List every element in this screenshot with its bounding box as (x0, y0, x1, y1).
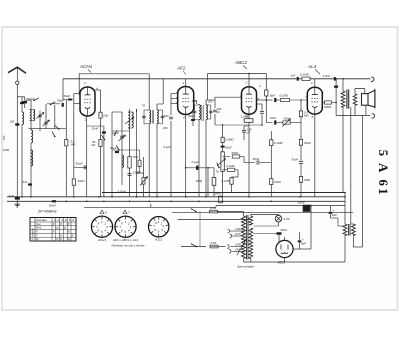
ground antenna (16, 200, 18, 202)
tap connector plugs (227, 245, 229, 249)
svg-text:1kΩ: 1kΩ (103, 114, 109, 118)
svg-text:0,1µF: 0,1µF (164, 145, 171, 149)
coil L5 oscillator (129, 109, 131, 112)
coil L1 antenna primary (21, 97, 23, 112)
IF transformer T1 secondary (157, 110, 158, 123)
switch S1b (50, 104, 52, 106)
svg-text:ABC1: ABC1 (234, 60, 247, 65)
connector hook right lower (371, 114, 374, 118)
wire IF1 sec top to AF2 loop (157, 103, 163, 105)
capacitor C15 IF1 tune 1 (143, 110, 145, 124)
resistor R12 10k (270, 179, 273, 185)
svg-text:5nF: 5nF (23, 180, 28, 184)
wire diode line to ABC1 (215, 96, 242, 98)
wire ACH1 anode loop (79, 74, 149, 109)
capacitor C5 padder dark (15, 123, 19, 125)
output transformer T3 secondary (353, 94, 357, 105)
svg-text:300Ω: 300Ω (324, 105, 332, 109)
wire AL4 top (314, 79, 316, 87)
svg-text:AZ11: AZ11 (154, 238, 162, 242)
resistor R19 2M grid leak (213, 168, 215, 178)
junction dots on buses (21, 196, 23, 198)
wire ground bus 2 (7, 196, 345, 198)
resistor R5 0.3M (222, 125, 224, 137)
wire HT bus top (63, 78, 371, 80)
wire AF2 cathode pin (194, 100, 197, 102)
svg-text:2MΩ: 2MΩ (195, 179, 203, 183)
wire AL4 grid leak down (300, 100, 302, 111)
wire ABC1 anode to coupling (266, 99, 268, 101)
svg-text:50nF: 50nF (298, 201, 305, 205)
capacitor C7 grid coupling dark (65, 100, 67, 140)
capacitor C10 gang 2 trimmer (125, 117, 134, 124)
svg-text:ACH1: ACH1 (79, 64, 93, 69)
svg-text:pF: pF (216, 110, 220, 114)
resistor R20 5k tone with switch (283, 121, 290, 124)
svg-text:8µF: 8µF (270, 94, 275, 98)
svg-text:220V: 220V (234, 243, 241, 247)
capacitor C9 20nF osc (103, 126, 105, 197)
wire antenna down-lead (16, 84, 18, 196)
switch S6 mains (195, 211, 197, 213)
coil L6 osc feedback (122, 155, 124, 167)
svg-text:50Ω: 50Ω (133, 155, 138, 159)
svg-text:2: 2 (310, 81, 313, 85)
tube AL4 V4 (307, 87, 322, 114)
wire heater to pilot lamp (250, 215, 252, 217)
svg-text:0,1MΩ: 0,1MΩ (274, 141, 283, 145)
capacitor C31 50nF AZ11 (277, 232, 282, 235)
svg-text:200: 200 (191, 99, 197, 103)
output transformer T3 primary (342, 79, 344, 91)
svg-text:2: 2 (258, 84, 261, 88)
svg-text:8µF: 8µF (332, 213, 337, 217)
rectifier AZ11 V5 (276, 240, 293, 257)
svg-text:50nF: 50nF (292, 158, 299, 162)
wire transformer bottom to chassis (243, 259, 245, 263)
capacitor C20 T2 tune2 (210, 105, 212, 119)
potentiometer P1 volume 1M (221, 152, 224, 172)
voltage selector arrow (237, 239, 247, 255)
resistor R7 0.1M (227, 168, 235, 171)
resistor R1 0.5M grid leak (65, 140, 68, 146)
capacitor C16 IF1 tune 2 (162, 110, 164, 124)
wire speaker bottom lead (365, 105, 367, 115)
svg-text:50pF: 50pF (64, 94, 71, 98)
capacitor C37 AVC diode (261, 104, 263, 111)
wire ACH1 grid (74, 102, 80, 104)
svg-text:pF: pF (246, 131, 251, 135)
capacitor C18 20uF cathode (191, 119, 195, 121)
svg-text:MΩ: MΩ (304, 114, 309, 118)
svg-text:ACH1: ACH1 (97, 238, 106, 242)
tube ABC1 V3 (242, 87, 257, 115)
capacitor C34 50nF line filter (303, 205, 310, 212)
wire extra speaker line 1 (350, 107, 352, 224)
wire to choke input (300, 248, 312, 250)
svg-text:50nF: 50nF (253, 157, 260, 161)
svg-text:+: + (333, 209, 335, 213)
capacitor C13 150pF (128, 173, 132, 175)
capacitor C1 500pF antenna series (17, 96, 24, 98)
transformer taps (230, 230, 244, 232)
wire to volume pot (207, 168, 209, 197)
svg-text:AF2: AF2 (176, 66, 186, 71)
wire ABC1 right pin (255, 96, 257, 98)
svg-text:Sperrschalter: Sperrschalter (237, 265, 255, 269)
switch S4 (118, 149, 120, 151)
filter choke L8 (343, 224, 347, 236)
wire AL4 anode bus to output transformer (335, 79, 337, 93)
capacitor C2 50pF (47, 103, 60, 105)
speaker LS1 (362, 94, 369, 106)
switch S5 tone Ta (218, 167, 220, 169)
svg-text:500: 500 (2, 135, 6, 140)
lamp icon 7 (123, 210, 127, 213)
pilot lamp LA1 (275, 215, 282, 222)
svg-text:0,1MΩ: 0,1MΩ (222, 179, 231, 183)
socket AF2 ABC1 AL4 bottom view (115, 216, 136, 237)
wire secondary bottom (354, 105, 356, 115)
antenna (8, 67, 26, 73)
svg-text:Ta: Ta (216, 170, 219, 174)
svg-text:0,3MΩ: 0,3MΩ (225, 138, 234, 142)
svg-text:50pF: 50pF (57, 99, 65, 103)
svg-text:50kΩ: 50kΩ (232, 151, 240, 155)
capacitor C25b 8uF coupling (257, 99, 273, 101)
svg-text:1,5MΩ: 1,5MΩ (241, 115, 251, 119)
svg-text:2: 2 (83, 81, 86, 85)
capacitor C28 blob at HT (297, 77, 299, 81)
wire HT to bus right (310, 206, 312, 230)
wire mains lead 2 (181, 246, 206, 248)
wire ACH1 anode to IF1 (136, 109, 138, 112)
wire HT down right (344, 193, 346, 225)
output transformer T3 core (346, 89, 348, 108)
svg-text:4µF: 4µF (301, 242, 306, 246)
wire extra speaker line 2 (362, 116, 364, 248)
resistor R4 1.5M (248, 114, 250, 119)
wire choke bottom connection (331, 217, 339, 219)
transformer T4 HT winding (249, 228, 253, 259)
wire AZ11 connections (278, 240, 280, 243)
svg-text:110V: 110V (235, 227, 241, 231)
svg-text:MΩ: MΩ (71, 143, 76, 147)
wire AF2 top cap (185, 79, 187, 87)
resistor R16 0.1M (299, 177, 302, 183)
svg-text:50nF: 50nF (49, 204, 56, 208)
IF transformer T2 coils (199, 105, 201, 120)
switch S1c (54, 105, 56, 129)
svg-text:2MΩ: 2MΩ (303, 178, 311, 182)
wire ground bus 3 (7, 200, 345, 202)
switch S1a wave band (33, 100, 35, 102)
svg-text:120pF: 120pF (137, 171, 145, 175)
wire AF2 grids left (171, 93, 178, 95)
capacitor C3 tuning gang 1 (39, 111, 41, 129)
switch linkage (199, 212, 201, 247)
switch S2 range (58, 128, 60, 130)
capacitor C33 8uF filter out (329, 212, 333, 214)
coil L4 lower winding (31, 150, 33, 166)
tube ACH1 V1 (80, 87, 95, 116)
resistor R15 50k (299, 139, 302, 145)
svg-text:20µF: 20µF (187, 114, 195, 118)
svg-text:Gesehen von der Lötseite: Gesehen von der Lötseite (111, 244, 144, 248)
coil L2 L3 tuned secondary (30, 100, 32, 109)
resistor R6 50k tone (223, 156, 230, 158)
capacitor C21 200pF diode (213, 109, 217, 111)
svg-text:0,1MΩ: 0,1MΩ (226, 164, 235, 168)
svg-text:+: + (302, 237, 304, 241)
wire ABC1 anode top (248, 74, 250, 87)
switch S3 osc (104, 139, 106, 141)
fuse F1 0.8A (210, 210, 218, 213)
switch S4b (114, 134, 116, 136)
svg-text:2nF: 2nF (290, 74, 296, 78)
resistor R3 osc grid (100, 90, 102, 112)
wire heater to sockets (84, 206, 216, 208)
IF T1 core (151, 110, 153, 124)
svg-text:2: 2 (56, 218, 59, 222)
resistor R18 300 ohm (325, 101, 332, 104)
capacitor C17 100pF AF2 (169, 116, 173, 118)
field coil L9 (352, 224, 356, 236)
wire osc mesh (112, 130, 130, 132)
resistor R21 50 ohm (139, 150, 141, 160)
transformer T4 heater winding (249, 216, 253, 225)
wire HT winding top to AZ11 anode (251, 227, 256, 229)
svg-text:20nF: 20nF (91, 127, 99, 131)
svg-text:10nF: 10nF (270, 116, 277, 120)
capacitor C19 T2 tune1 (194, 105, 196, 119)
svg-text:0,8A: 0,8A (211, 241, 217, 245)
capacitor C36 padder trimmer (143, 157, 145, 197)
resistor R22 0.5M osc (128, 157, 131, 168)
svg-text:10kΩ: 10kΩ (78, 179, 86, 183)
svg-text:2: 2 (245, 81, 248, 85)
capacitor C26b 10nF tone (265, 96, 267, 122)
svg-text:AZ11: AZ11 (277, 261, 286, 265)
wire AVC junction (215, 124, 262, 126)
socket ACH1 bottom view (91, 216, 112, 237)
svg-text:1000: 1000 (3, 148, 10, 152)
resistor R8 0.1M vert (230, 178, 233, 184)
svg-text:50kΩ: 50kΩ (304, 141, 312, 145)
wire ACH1 cathode down (86, 116, 88, 197)
wire AL4 cathode down (314, 114, 316, 197)
wire T2 secondary top feed (207, 74, 209, 101)
svg-text:6,3V: 6,3V (284, 217, 291, 221)
capacitor C6 9nF to ground (15, 197, 20, 200)
IF transformer T1 primary (148, 109, 150, 111)
svg-text:0,1MΩ: 0,1MΩ (300, 73, 310, 77)
svg-text:100: 100 (164, 114, 169, 118)
wire speaker return (336, 115, 370, 117)
svg-text:100: 100 (10, 120, 15, 124)
resistor R3b 50k osc anode (99, 140, 102, 147)
svg-text:2,5nF: 2,5nF (322, 74, 331, 78)
capacitor C38 5nF (28, 183, 32, 185)
wire IF1 primary bottom (148, 130, 150, 197)
capacitor C24 50nF coupling (244, 162, 255, 164)
svg-text:50µF: 50µF (110, 146, 117, 150)
resistor R13 0.1M grid stopper (281, 98, 290, 101)
svg-text:127V: 127V (235, 232, 241, 236)
capacitor C4 trimmer (45, 104, 47, 129)
svg-text:AL4: AL4 (307, 64, 317, 69)
wire mains to heater bus link (179, 206, 181, 213)
switch S7 mains 2 (195, 246, 197, 248)
resistor R17 0.1M screen feed (302, 77, 310, 80)
svg-text:0,1MΩ: 0,1MΩ (280, 94, 289, 98)
wire cap to bus (305, 205, 307, 208)
choke core (347, 224, 349, 236)
resistor R11 0.1M AL4 grid vert (270, 140, 272, 163)
capacitor C32 4uF reservoir (298, 240, 302, 242)
wire heater bus (216, 205, 345, 207)
svg-text:10kΩ: 10kΩ (274, 180, 282, 184)
tube AF2 V2 (178, 87, 194, 115)
switch table (30, 218, 76, 242)
wire ground bus 1 (102, 192, 345, 194)
svg-text:5kΩ: 5kΩ (284, 116, 290, 120)
capacitor C14 blob on x136 (136, 109, 138, 197)
resistor R10 0.3M ABC1 anode load (265, 79, 267, 90)
wire speaker leads (355, 89, 365, 94)
svg-text:70: 70 (142, 104, 145, 108)
socket AZ11 bottom view (149, 217, 169, 237)
svg-text:ZF=468kHz: ZF=468kHz (37, 210, 57, 214)
capacitor C23 50uF (222, 142, 224, 145)
wire bottom right return (353, 246, 362, 248)
svg-text:50µF: 50µF (76, 161, 83, 165)
wire RF node (29, 128, 53, 130)
capacitor C29 2.5nF anode (335, 79, 337, 116)
wire AF2 anode down (185, 115, 187, 197)
svg-text:0,8A: 0,8A (210, 206, 216, 210)
wire mains lead 1 (181, 211, 206, 213)
capacitor C35 0.1uF coupling (186, 167, 214, 169)
svg-text:200: 200 (162, 126, 168, 130)
svg-text:0,1µF: 0,1µF (192, 160, 200, 164)
svg-text:50µF: 50µF (225, 145, 232, 149)
connector hook top right (371, 77, 374, 81)
wire osc top (87, 125, 104, 127)
wire heater bus 2 (172, 211, 353, 213)
wire T2 sec top to diode (206, 99, 215, 101)
transformer T4 core (245, 215, 247, 260)
resistor R2 10k (72, 179, 75, 185)
svg-text:50nF: 50nF (281, 228, 288, 232)
resistor R14 0.5M (299, 111, 302, 117)
svg-text:2: 2 (182, 81, 185, 85)
capacitor C11 padder (121, 131, 123, 185)
svg-text:5 A 61: 5 A 61 (376, 150, 391, 197)
capacitor C30 50nF bus (52, 200, 56, 202)
svg-text:AF2 u.ABC1 u.AL4: AF2 u.ABC1 u.AL4 (112, 238, 139, 242)
wire heater bus 3 (178, 219, 251, 221)
lamp icon 8 (100, 210, 104, 213)
capacitor C12 blob (115, 151, 119, 153)
power transformer T4 primary (242, 216, 246, 259)
resistor R9 1M on bus (219, 196, 223, 203)
capacitor C8 50nF cathode (74, 166, 87, 168)
capacitor C27 50nF (299, 161, 303, 163)
fuse F2 0.8A (210, 245, 218, 248)
wire HT out to filter (293, 248, 299, 250)
capacitor C22 100pF (242, 129, 246, 131)
